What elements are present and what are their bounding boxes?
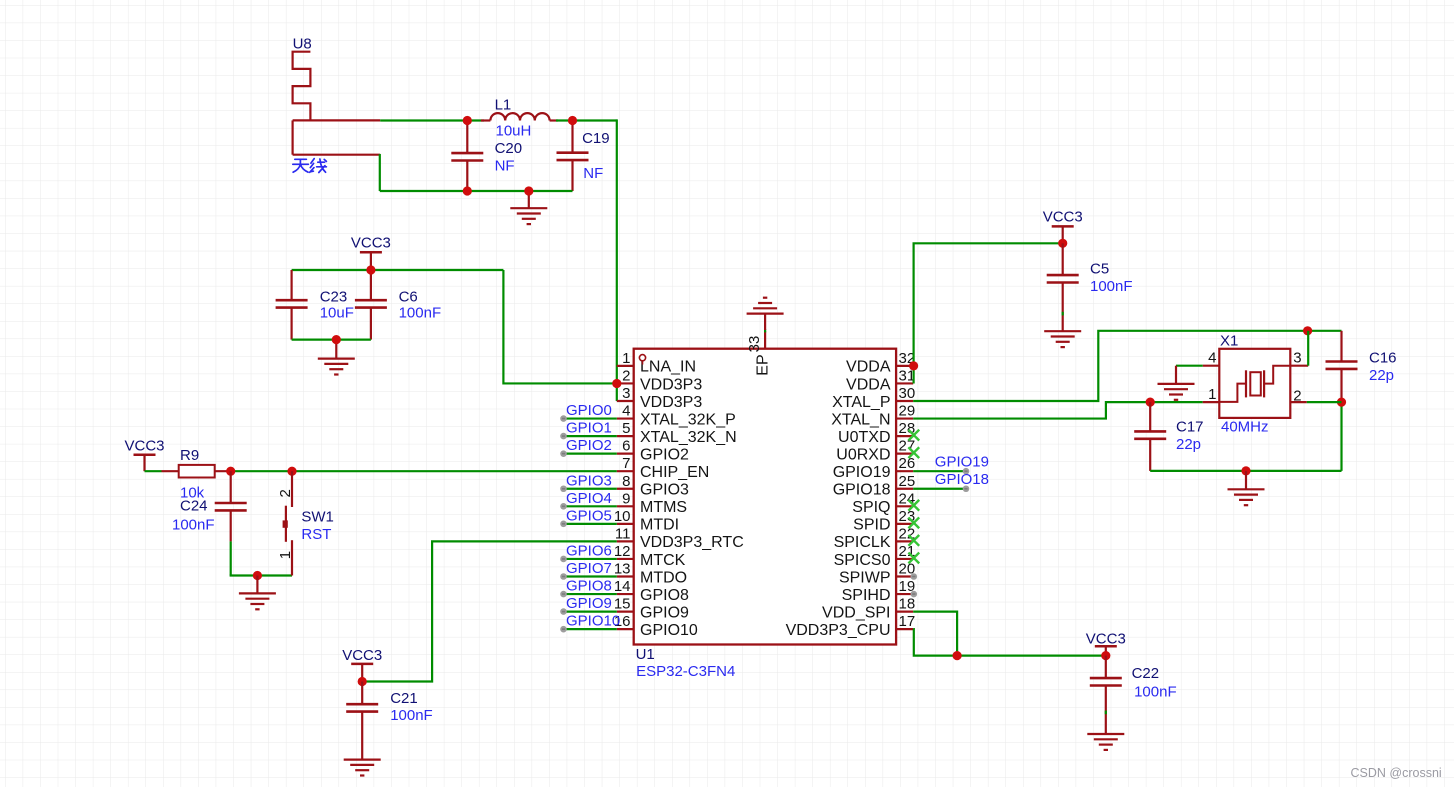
svg-text:7: 7 — [622, 455, 630, 472]
svg-text:SPICS0: SPICS0 — [834, 552, 891, 569]
svg-text:C5: C5 — [1090, 260, 1109, 277]
svg-text:8: 8 — [622, 473, 630, 490]
svg-text:29: 29 — [899, 403, 916, 420]
svg-text:SPID: SPID — [853, 517, 890, 534]
svg-text:10uH: 10uH — [496, 122, 532, 139]
svg-text:CHIP_EN: CHIP_EN — [640, 464, 709, 481]
svg-text:SPIHD: SPIHD — [842, 587, 891, 604]
svg-text:VCC3: VCC3 — [342, 647, 382, 664]
svg-text:11: 11 — [615, 525, 631, 542]
svg-text:12: 12 — [614, 543, 631, 560]
svg-text:EP: EP — [754, 354, 771, 375]
svg-text:15: 15 — [614, 596, 631, 613]
svg-text:26: 26 — [899, 455, 916, 472]
svg-text:CSDN @crossni: CSDN @crossni — [1351, 766, 1442, 780]
svg-text:ESP32-C3FN4: ESP32-C3FN4 — [636, 663, 735, 680]
svg-text:22p: 22p — [1176, 436, 1201, 453]
svg-text:RST: RST — [301, 526, 331, 543]
svg-text:SPIQ: SPIQ — [852, 499, 890, 516]
svg-text:100nF: 100nF — [399, 305, 442, 322]
svg-text:MTDO: MTDO — [640, 569, 687, 586]
svg-text:4: 4 — [622, 403, 630, 420]
svg-text:GPIO3: GPIO3 — [566, 472, 612, 489]
svg-text:L1: L1 — [495, 97, 512, 114]
svg-text:C16: C16 — [1369, 349, 1397, 366]
svg-text:U1: U1 — [636, 646, 655, 663]
svg-text:C20: C20 — [495, 140, 523, 157]
svg-text:C23: C23 — [320, 289, 348, 306]
svg-text:3: 3 — [1293, 350, 1301, 367]
svg-text:6: 6 — [622, 438, 630, 455]
svg-text:GPIO1: GPIO1 — [566, 420, 612, 437]
svg-text:GPIO2: GPIO2 — [640, 446, 689, 463]
svg-text:30: 30 — [899, 385, 916, 402]
svg-text:10uF: 10uF — [320, 305, 354, 322]
svg-text:100nF: 100nF — [1134, 684, 1177, 701]
svg-text:1: 1 — [277, 551, 294, 559]
svg-text:VDD3P3_CPU: VDD3P3_CPU — [786, 622, 891, 639]
svg-text:U8: U8 — [293, 36, 312, 53]
svg-text:XTAL_32K_P: XTAL_32K_P — [640, 411, 736, 428]
svg-text:GPIO8: GPIO8 — [640, 587, 689, 604]
svg-text:C22: C22 — [1132, 665, 1160, 682]
svg-text:10: 10 — [614, 508, 631, 525]
svg-text:22p: 22p — [1369, 367, 1394, 384]
svg-text:U0RXD: U0RXD — [836, 446, 890, 463]
svg-text:SW1: SW1 — [301, 508, 334, 525]
svg-text:R9: R9 — [180, 447, 199, 464]
svg-text:VDD_SPI: VDD_SPI — [822, 604, 890, 621]
svg-text:VDD3P3: VDD3P3 — [640, 394, 702, 411]
svg-text:NF: NF — [583, 165, 603, 182]
svg-text:VDD3P3_RTC: VDD3P3_RTC — [640, 534, 744, 551]
svg-text:GPIO9: GPIO9 — [640, 604, 689, 621]
svg-text:VCC3: VCC3 — [351, 234, 391, 251]
svg-text:GPIO18: GPIO18 — [935, 471, 989, 488]
svg-text:13: 13 — [614, 561, 631, 578]
svg-text:GPIO0: GPIO0 — [566, 402, 612, 419]
svg-text:100nF: 100nF — [172, 516, 215, 533]
svg-text:VCC3: VCC3 — [124, 438, 164, 455]
svg-text:SPIWP: SPIWP — [839, 569, 891, 586]
svg-text:XTAL_32K_N: XTAL_32K_N — [640, 429, 737, 446]
svg-text:XTAL_P: XTAL_P — [832, 394, 890, 411]
svg-text:GPIO9: GPIO9 — [566, 595, 612, 612]
svg-text:C24: C24 — [180, 498, 208, 515]
svg-text:C6: C6 — [399, 289, 418, 306]
svg-text:XTAL_N: XTAL_N — [831, 411, 890, 428]
svg-text:MTDI: MTDI — [640, 517, 679, 534]
svg-text:VDD3P3: VDD3P3 — [640, 376, 702, 393]
svg-text:1: 1 — [1208, 386, 1216, 403]
svg-text:MTMS: MTMS — [640, 499, 687, 516]
svg-text:40MHz: 40MHz — [1221, 419, 1269, 436]
svg-text:C19: C19 — [582, 130, 610, 147]
svg-text:GPIO7: GPIO7 — [566, 560, 612, 577]
svg-text:GPIO19: GPIO19 — [833, 464, 891, 481]
svg-text:2: 2 — [277, 489, 294, 497]
svg-text:C17: C17 — [1176, 418, 1204, 435]
svg-text:SPICLK: SPICLK — [834, 534, 891, 551]
svg-text:U0TXD: U0TXD — [838, 429, 890, 446]
svg-text:C21: C21 — [390, 690, 418, 707]
svg-text:GPIO3: GPIO3 — [640, 482, 689, 499]
svg-text:14: 14 — [614, 578, 631, 595]
svg-text:MTCK: MTCK — [640, 552, 686, 569]
svg-text:4: 4 — [1208, 350, 1216, 367]
svg-text:2: 2 — [1293, 388, 1301, 405]
svg-text:GPIO5: GPIO5 — [566, 507, 612, 524]
svg-text:25: 25 — [899, 473, 916, 490]
svg-text:5: 5 — [622, 420, 630, 437]
svg-text:18: 18 — [899, 596, 916, 613]
svg-text:2: 2 — [622, 367, 630, 384]
svg-text:GPIO10: GPIO10 — [640, 622, 698, 639]
svg-text:GPIO18: GPIO18 — [833, 482, 891, 499]
svg-text:NF: NF — [495, 157, 515, 174]
svg-text:17: 17 — [899, 613, 916, 630]
svg-text:GPIO8: GPIO8 — [566, 578, 612, 595]
svg-text:VDDA: VDDA — [846, 359, 891, 376]
svg-text:LNA_IN: LNA_IN — [640, 359, 696, 376]
svg-text:3: 3 — [622, 385, 630, 402]
svg-text:VCC3: VCC3 — [1043, 209, 1083, 226]
svg-text:VDDA: VDDA — [846, 376, 891, 393]
svg-text:GPIO19: GPIO19 — [935, 454, 989, 471]
svg-text:100nF: 100nF — [1090, 278, 1133, 295]
svg-text:X1: X1 — [1220, 333, 1238, 350]
svg-text:GPIO6: GPIO6 — [566, 542, 612, 559]
svg-text:33: 33 — [746, 336, 763, 353]
svg-text:GPIO10: GPIO10 — [566, 613, 620, 630]
svg-text:GPIO2: GPIO2 — [566, 437, 612, 454]
svg-text:VCC3: VCC3 — [1086, 631, 1126, 648]
svg-text:1: 1 — [622, 350, 630, 367]
svg-text:100nF: 100nF — [390, 707, 433, 724]
svg-text:GPIO4: GPIO4 — [566, 490, 612, 507]
svg-text:9: 9 — [622, 490, 630, 507]
